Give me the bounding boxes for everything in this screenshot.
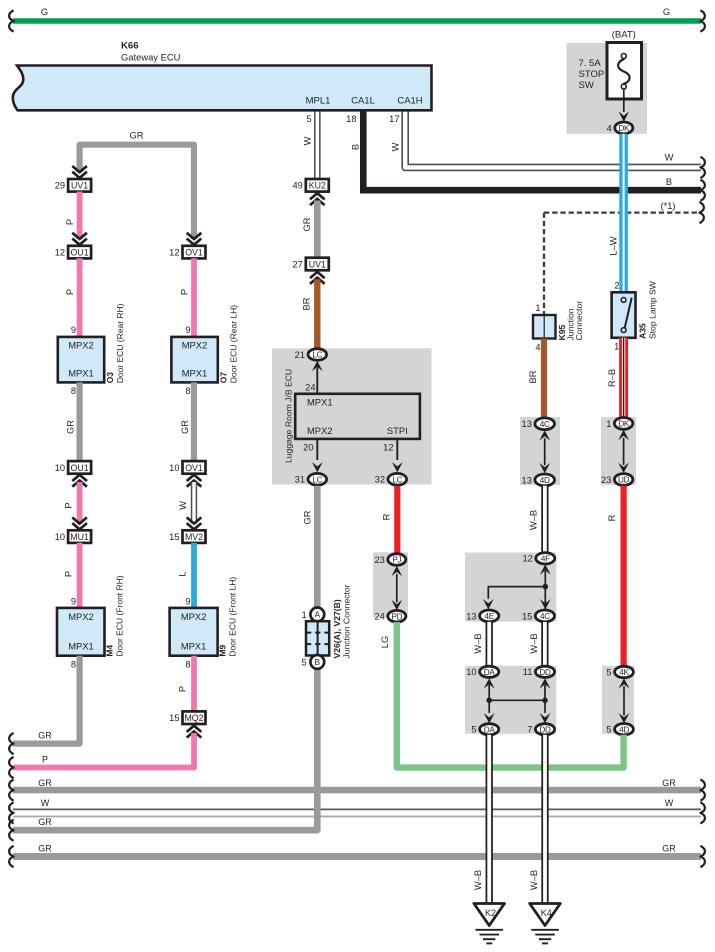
- svg-text:W–B: W–B: [473, 870, 483, 890]
- svg-text:5: 5: [606, 667, 611, 677]
- svg-text:DD: DD: [539, 668, 551, 677]
- break symbols of GR bus: [9, 780, 14, 801]
- ECU Luggage Room J/B ECU inner box: [295, 394, 420, 439]
- wire W white from MPL1 pin 5 to connector KU2: [314, 110, 321, 179]
- connector 10 OV1: [183, 461, 206, 474]
- wire LG light green from PD to 4D: [397, 622, 624, 768]
- svg-text:49: 49: [292, 181, 302, 191]
- arrows between 4C and 4D: [544, 438, 546, 465]
- connector 10 DA: [480, 666, 499, 677]
- svg-text:G: G: [41, 7, 48, 17]
- svg-text:10: 10: [55, 532, 65, 542]
- svg-text:MU1: MU1: [70, 532, 89, 542]
- svg-text:MPX2: MPX2: [182, 339, 208, 350]
- svg-text:DA: DA: [484, 725, 496, 734]
- svg-text:W: W: [303, 136, 313, 145]
- svg-text:P: P: [178, 686, 188, 692]
- chevron arrow up from UV1: [310, 272, 325, 284]
- svg-text:OU1: OU1: [71, 248, 89, 258]
- arrows between 4K and 4D: [623, 686, 625, 715]
- connector 5 4D: [615, 724, 634, 735]
- connector 21 LC: [308, 349, 327, 361]
- svg-text:W: W: [391, 142, 401, 151]
- svg-text:8: 8: [71, 386, 76, 396]
- wire from fuse to connector DK: [623, 89, 625, 112]
- svg-text:12: 12: [55, 248, 65, 258]
- svg-text:1: 1: [614, 342, 619, 352]
- ECU M9 Door ECU Front LH: [170, 608, 218, 656]
- svg-text:21: 21: [295, 350, 305, 360]
- break symbol right of B wire: [700, 180, 705, 201]
- wire W white from OV1 to MV2: [191, 482, 197, 524]
- svg-text:23: 23: [374, 555, 384, 565]
- svg-text:13: 13: [466, 611, 476, 621]
- shaded area connectors 4C/4D: [520, 417, 560, 485]
- shaded area connectors PJ/PD: [373, 552, 408, 617]
- svg-text:W–B: W–B: [529, 870, 539, 890]
- break symbol left of GR bus: [9, 733, 14, 754]
- svg-text:MPX1: MPX1: [68, 640, 94, 651]
- svg-text:P: P: [180, 289, 190, 295]
- svg-text:MV2: MV2: [185, 532, 203, 542]
- wire W white from CA1H pin 17 to right edge: [405, 110, 701, 167]
- junction node right: [542, 698, 548, 704]
- svg-text:OV1: OV1: [185, 463, 203, 473]
- svg-text:27: 27: [292, 259, 302, 269]
- svg-text:Gateway ECU: Gateway ECU: [121, 52, 181, 63]
- svg-text:P: P: [64, 502, 74, 508]
- svg-text:7. 5A: 7. 5A: [579, 58, 602, 69]
- arrow up into LC pin 21: [312, 361, 323, 371]
- svg-text:(*1): (*1): [661, 201, 676, 211]
- wire W-B from DA to ground K2: [486, 735, 493, 903]
- svg-text:LG: LG: [380, 636, 390, 648]
- svg-text:2: 2: [614, 281, 619, 291]
- svg-text:MPX2: MPX2: [307, 425, 333, 436]
- connector 5 DA: [480, 724, 499, 735]
- wire R-B red/black from Stop Lamp SW pin 1 to DK: [619, 338, 628, 418]
- svg-text:BR: BR: [528, 370, 538, 383]
- svg-text:STOP: STOP: [579, 69, 605, 80]
- connector 29 UV1: [68, 179, 91, 192]
- connector 12 4F: [536, 553, 555, 564]
- break symbol left of GR bus center: [9, 820, 14, 841]
- junction connector V26(A) V27(B): [310, 608, 324, 622]
- wire GR gray bus bottom full width: [13, 853, 701, 860]
- svg-text:LC: LC: [312, 351, 322, 360]
- connector 10 OU1: [68, 461, 91, 474]
- connector 15 MQ2: [183, 711, 206, 724]
- svg-text:B: B: [666, 177, 672, 187]
- wire R red from LC 32 to PJ: [394, 486, 400, 553]
- chevron arrow into MV2: [187, 517, 202, 529]
- wire G green horizontal top: [13, 18, 701, 24]
- svg-text:9: 9: [71, 325, 76, 335]
- svg-text:Door ECU (Rear RH): Door ECU (Rear RH): [115, 303, 125, 383]
- svg-text:UV1: UV1: [71, 181, 88, 191]
- svg-text:W–B: W–B: [529, 510, 539, 530]
- ECU K66 Gateway ECU box: [13, 66, 432, 111]
- chevron arrow up from KU2: [310, 193, 325, 205]
- svg-text:18: 18: [346, 114, 356, 124]
- shaded area connectors DA/DD: [465, 666, 556, 734]
- switch A35 Stop Lamp SW: [612, 292, 636, 338]
- wire P pink from UV1 to OU1: [77, 192, 83, 240]
- svg-text:GR: GR: [66, 420, 76, 434]
- svg-text:4D: 4D: [619, 725, 629, 734]
- connector 10 MU1: [68, 530, 91, 543]
- svg-text:8: 8: [185, 386, 190, 396]
- svg-text:10: 10: [55, 463, 65, 473]
- wire P pink from OU1 to MU1: [77, 482, 83, 524]
- svg-text:9: 9: [185, 597, 190, 607]
- chevron arrow into OV1: [187, 233, 202, 245]
- connector 11 DD: [535, 666, 554, 677]
- chevron arrow up from MQ2: [187, 726, 202, 738]
- svg-text:MPL1: MPL1: [306, 96, 331, 107]
- break symbols of W bus: [9, 802, 14, 823]
- svg-text:4C: 4C: [540, 420, 550, 429]
- svg-text:V26(A), V27(B): V26(A), V27(B): [332, 599, 342, 658]
- wire P pink from MQ2 to left edge bus: [13, 733, 194, 768]
- svg-text:4: 4: [607, 123, 612, 133]
- svg-text:DK: DK: [618, 420, 630, 429]
- arrow down into lower DD: [540, 713, 551, 723]
- svg-text:K4: K4: [541, 908, 552, 918]
- svg-text:O7: O7: [219, 372, 229, 384]
- svg-text:W: W: [665, 153, 674, 163]
- ECU M4 Door ECU Front RH: [57, 608, 105, 656]
- wire GR gray bus full width: [13, 787, 701, 794]
- svg-text:L: L: [178, 571, 188, 576]
- svg-text:GR: GR: [662, 844, 676, 854]
- svg-text:W: W: [178, 501, 188, 510]
- svg-text:13: 13: [522, 419, 532, 429]
- wire GR gray from KU2 to UV1: [314, 201, 321, 258]
- svg-text:A: A: [315, 610, 321, 620]
- connector 15 MV2: [183, 530, 206, 543]
- svg-text:15: 15: [169, 713, 179, 723]
- svg-text:10: 10: [466, 667, 476, 677]
- svg-text:MPX1: MPX1: [68, 368, 94, 379]
- svg-text:R: R: [382, 513, 392, 520]
- svg-text:(BAT): (BAT): [612, 30, 636, 41]
- svg-text:K66: K66: [121, 41, 139, 52]
- svg-text:PJ: PJ: [392, 556, 401, 565]
- svg-text:GR: GR: [38, 817, 52, 827]
- svg-text:9: 9: [71, 597, 76, 607]
- svg-text:DA: DA: [484, 668, 496, 677]
- svg-text:12: 12: [383, 443, 393, 453]
- svg-text:9: 9: [185, 325, 190, 335]
- connector 12 OU1: [68, 246, 91, 259]
- arrow down into LC pin 32: [392, 462, 403, 472]
- svg-text:MPX2: MPX2: [68, 339, 94, 350]
- svg-text:1: 1: [302, 610, 307, 620]
- svg-text:OU1: OU1: [71, 463, 89, 473]
- arrow down into lower DA: [484, 713, 495, 723]
- svg-text:11: 11: [523, 667, 533, 677]
- svg-text:4D: 4D: [540, 476, 550, 485]
- svg-text:A35: A35: [638, 323, 648, 339]
- svg-text:Door ECU (Rear LH): Door ECU (Rear LH): [229, 305, 239, 384]
- wire P pink from M9 pin 8 to MQ2: [191, 656, 197, 711]
- svg-text:17: 17: [389, 114, 399, 124]
- chevron arrow into MU1: [72, 517, 87, 529]
- svg-text:P: P: [42, 755, 48, 765]
- svg-text:G: G: [663, 7, 670, 17]
- connector 7 DD: [535, 724, 554, 735]
- connector 49 KU2: [306, 179, 329, 192]
- svg-text:CA1L: CA1L: [351, 96, 375, 107]
- arrow down into 4E: [483, 599, 494, 609]
- svg-text:7: 7: [527, 725, 532, 735]
- connector 32 LC: [388, 473, 407, 485]
- svg-text:W: W: [665, 798, 674, 808]
- svg-text:M4: M4: [105, 645, 115, 657]
- svg-text:MPX1: MPX1: [182, 368, 208, 379]
- junction connector K95: [533, 315, 556, 339]
- ECU O3 Door ECU Rear RH: [58, 337, 104, 383]
- chevron arrow up from OU1: [72, 475, 87, 487]
- svg-text:4C: 4C: [540, 612, 550, 621]
- wire R red from UD to 4K: [620, 486, 626, 667]
- svg-text:8: 8: [185, 660, 190, 670]
- svg-text:Junction Connector: Junction Connector: [342, 584, 352, 658]
- ground K4: [530, 904, 561, 926]
- svg-text:10: 10: [169, 463, 179, 473]
- connector 4 DK below fuse: [615, 122, 633, 134]
- wire W-B from 4E to DA: [486, 622, 493, 666]
- svg-text:Luggage Room J/B ECU: Luggage Room J/B ECU: [284, 369, 294, 463]
- svg-text:W: W: [41, 798, 50, 808]
- connector 23 UD: [614, 474, 632, 486]
- svg-text:DD: DD: [539, 725, 551, 734]
- svg-text:P: P: [65, 219, 75, 225]
- wire joining DA and DD: [488, 685, 490, 713]
- svg-text:MPX1: MPX1: [307, 396, 333, 407]
- break symbols of bottom GR bus: [9, 846, 14, 867]
- svg-text:W–B: W–B: [473, 633, 483, 653]
- wire W-B from 4D to 4F: [541, 486, 548, 553]
- svg-text:5: 5: [606, 725, 611, 735]
- arrow down into LC pin 31: [312, 462, 323, 472]
- svg-text:GR: GR: [303, 510, 313, 524]
- svg-text:MPX2: MPX2: [68, 611, 94, 622]
- wire GR gray from M4 pin 8 to left edge bus: [13, 656, 80, 744]
- svg-text:29: 29: [55, 181, 65, 191]
- svg-text:5: 5: [471, 725, 476, 735]
- svg-text:24: 24: [374, 612, 384, 622]
- svg-text:R–B: R–B: [607, 369, 617, 387]
- svg-text:4F: 4F: [541, 554, 550, 563]
- svg-text:GR: GR: [130, 131, 144, 141]
- svg-text:STPI: STPI: [387, 425, 408, 436]
- svg-text:Door ECU (Front LH): Door ECU (Front LH): [228, 577, 238, 657]
- svg-text:UD: UD: [618, 476, 630, 485]
- svg-text:31: 31: [295, 475, 305, 485]
- shaded area around fuse STOP SW: [567, 43, 648, 134]
- svg-text:MPX1: MPX1: [181, 640, 207, 651]
- wire to Luggage Room J/B ECU pin 24: [316, 367, 318, 394]
- chevron arrow into UV1: [72, 166, 87, 178]
- junction node left: [486, 698, 492, 704]
- svg-text:UV1: UV1: [309, 259, 326, 269]
- arrow up into 4F: [540, 564, 551, 574]
- svg-text:O3: O3: [105, 372, 115, 384]
- pin 12 wire from STPI: [396, 439, 398, 460]
- connector 1 DK: [614, 418, 632, 430]
- svg-text:5: 5: [306, 114, 311, 124]
- connector 12 OV1: [183, 246, 206, 259]
- arrow up into DA: [484, 678, 495, 688]
- svg-text:Stop Lamp SW: Stop Lamp SW: [648, 280, 658, 339]
- svg-text:R: R: [607, 514, 617, 521]
- shaded area Luggage Room J/B ECU: [272, 348, 432, 484]
- svg-text:B: B: [315, 657, 321, 667]
- svg-text:5: 5: [302, 658, 307, 668]
- svg-text:CA1H: CA1H: [397, 96, 422, 107]
- junction node: [543, 584, 549, 590]
- wire L-W blue/white from DK to Stop Lamp SW pin 2: [619, 134, 628, 292]
- arrow down into 4C: [540, 599, 551, 609]
- svg-text:Connector: Connector: [574, 301, 584, 341]
- svg-text:12: 12: [522, 554, 532, 564]
- svg-text:P: P: [64, 571, 74, 577]
- svg-text:P: P: [65, 289, 75, 295]
- svg-text:B: B: [351, 144, 361, 150]
- svg-text:M9: M9: [218, 645, 228, 657]
- dashed option line (*1): [544, 211, 701, 213]
- wire BR brown from K95 pin 4 to 4C: [541, 339, 547, 419]
- ECU O7 Door ECU Rear LH: [171, 337, 217, 383]
- svg-text:15: 15: [169, 532, 179, 542]
- connector 27 UV1: [306, 258, 329, 271]
- wire GR gray from O7 pin 8 to OV1: [191, 382, 197, 461]
- wire W white bus full width: [13, 808, 701, 810]
- break symbol left of P bus: [9, 757, 14, 778]
- svg-text:12: 12: [169, 248, 179, 258]
- connector 13 4E: [480, 610, 499, 622]
- ground K2: [474, 904, 505, 926]
- wire W-B from 4C to DD: [541, 622, 548, 666]
- connector 31 LC: [308, 473, 327, 485]
- wire P pink from OU1 to O3 pin 9: [77, 258, 83, 337]
- break symbol right of W wire: [700, 157, 705, 178]
- wire GR gray top linking rear door columns: [80, 145, 194, 239]
- svg-text:GR: GR: [180, 420, 190, 434]
- svg-text:GR: GR: [38, 778, 52, 788]
- connector 23 PJ: [388, 554, 406, 566]
- svg-text:32: 32: [375, 475, 385, 485]
- svg-text:L–W: L–W: [609, 236, 619, 255]
- shaded area connectors 4F/4E/4C: [465, 553, 556, 622]
- svg-text:13: 13: [522, 475, 532, 485]
- svg-text:Door ECU (Front RH): Door ECU (Front RH): [115, 575, 125, 656]
- svg-text:4K: 4K: [619, 668, 629, 677]
- svg-text:GR: GR: [38, 731, 52, 741]
- connector 13 4D: [535, 474, 555, 486]
- break symbol right of dashed line: [699, 202, 704, 223]
- wire L blue from MV2 to M9 pin 9: [191, 543, 197, 608]
- connector 13 4C: [535, 418, 555, 430]
- svg-text:8: 8: [71, 660, 76, 670]
- svg-text:OV1: OV1: [185, 248, 203, 258]
- chevron arrow up from OV1: [187, 475, 202, 487]
- svg-text:24: 24: [305, 382, 315, 392]
- svg-text:W–B: W–B: [529, 633, 539, 653]
- chevron arrow into OU1: [72, 233, 87, 245]
- svg-text:23: 23: [601, 475, 611, 485]
- connector 5 4K: [615, 666, 634, 677]
- svg-text:LC: LC: [312, 475, 322, 484]
- svg-text:PD: PD: [391, 612, 402, 621]
- connector 15 4C: [535, 610, 554, 622]
- connector 24 PD: [388, 610, 406, 622]
- svg-text:GR: GR: [662, 778, 676, 788]
- svg-text:MQ2: MQ2: [184, 713, 203, 723]
- svg-text:SW: SW: [579, 80, 594, 91]
- svg-text:20: 20: [303, 443, 313, 453]
- svg-text:GR: GR: [38, 844, 52, 854]
- svg-text:DK: DK: [618, 124, 630, 133]
- wire P pink from OV1 to O7 pin 9: [191, 258, 197, 337]
- wire BR brown from UV1 to LC: [314, 279, 320, 348]
- svg-text:K2: K2: [485, 908, 496, 918]
- arrow up into DD: [540, 678, 551, 688]
- svg-text:1: 1: [606, 419, 611, 429]
- svg-text:KU2: KU2: [309, 181, 326, 191]
- svg-text:4E: 4E: [484, 612, 494, 621]
- svg-text:LC: LC: [392, 475, 402, 484]
- wire GR gray from O3 pin 8 to OU1: [76, 382, 82, 461]
- svg-text:MPX2: MPX2: [181, 611, 207, 622]
- shaded area connectors 4K/4D: [602, 666, 634, 734]
- wire P pink from MU1 to M4 pin 9: [77, 543, 83, 608]
- svg-text:BR: BR: [302, 297, 312, 310]
- shaded area connectors DK/UD: [601, 417, 636, 485]
- wire inside junction block 4F to 4E and 4C: [544, 571, 546, 610]
- pin 20 wire from MPX2: [316, 439, 318, 460]
- break symbol left of G wire: [9, 10, 14, 31]
- svg-text:4: 4: [535, 343, 540, 353]
- wire W-B from DD to ground K4: [541, 735, 548, 903]
- svg-text:15: 15: [522, 611, 532, 621]
- svg-text:GR: GR: [302, 217, 312, 231]
- break symbol right of G wire: [700, 10, 705, 31]
- wire B black from CA1L pin 18 to right edge: [363, 110, 701, 190]
- arrows between PJ and PD: [396, 574, 398, 602]
- svg-text:1: 1: [535, 303, 540, 313]
- wire GR gray from LC 31 to GR bus: [13, 486, 317, 830]
- arrows between DK and UD: [623, 438, 625, 465]
